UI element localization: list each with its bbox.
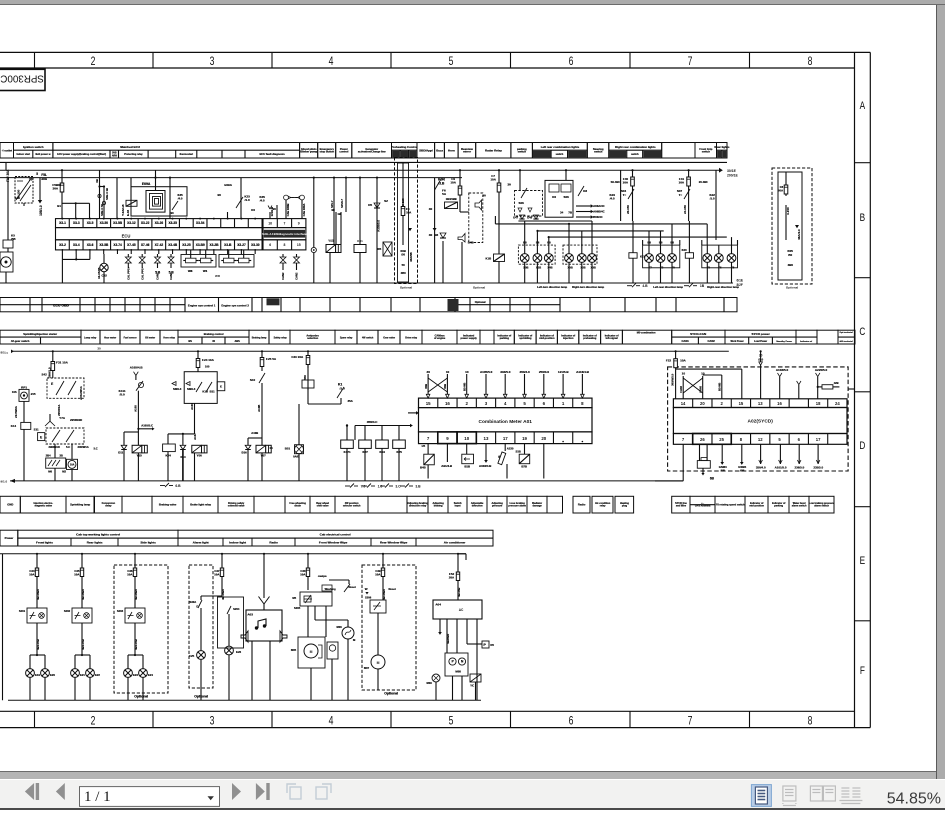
- svg-text:4: 4: [504, 401, 507, 406]
- svg-text:350/4.0: 350/4.0: [519, 370, 529, 374]
- svg-text:/3.B: /3.B: [438, 182, 445, 186]
- svg-text:Braking valve: Braking valve: [159, 503, 177, 507]
- svg-text:X3B: X3B: [590, 266, 595, 270]
- svg-text:Horn: Horn: [448, 148, 455, 152]
- svg-text:parking: parking: [500, 336, 510, 340]
- svg-text:0A/E: 0A/E: [293, 455, 299, 459]
- svg-text:X3-22: X3-22: [141, 221, 150, 225]
- svg-text:power supply: power supply: [460, 336, 477, 340]
- svg-text:W: W: [365, 587, 368, 591]
- svg-text:X3-5B: X3-5B: [113, 221, 123, 225]
- svg-text:/4.0: /4.0: [260, 199, 265, 203]
- svg-text:Right-turn direction lamp: Right-turn direction lamp: [572, 285, 604, 289]
- svg-text:Air conditioner: Air conditioner: [444, 541, 466, 545]
- svg-text:10: 10: [701, 372, 705, 376]
- svg-text:Optional: Optional: [194, 695, 208, 699]
- svg-text:M0-combination: M0-combination: [637, 331, 656, 334]
- horn relay 1B4 and buzzer B4B: [434, 169, 485, 289]
- svg-text:C02: C02: [101, 274, 107, 278]
- svg-text:Cab top working lights control: Cab top working lights control: [76, 533, 120, 537]
- band3 front wiper F30 S305 M05 M06: [291, 553, 356, 701]
- svg-text:S201: S201: [19, 609, 26, 613]
- svg-text:Radio: Radio: [578, 503, 586, 507]
- toolbar: [0, 780, 945, 808]
- svg-text:Optional: Optional: [400, 285, 412, 289]
- svg-text:S42: S42: [41, 373, 47, 377]
- svg-text:Power: Power: [5, 536, 15, 540]
- svg-text:M07: M07: [364, 666, 370, 670]
- svg-text:A91/4.B: A91/4.B: [441, 464, 452, 468]
- svg-text:GND: GND: [7, 503, 13, 507]
- svg-text:2B4: 2B4: [46, 454, 51, 458]
- SYCD A02 block: [673, 399, 847, 445]
- SAE J1939 diagnostic interface connector: [262, 219, 307, 250]
- svg-text:Sprinkling/Injection starter: Sprinkling/Injection starter: [23, 332, 57, 336]
- svg-text:M: M: [310, 650, 313, 654]
- svg-text:10A: 10A: [490, 178, 496, 182]
- svg-text:30: 30: [507, 183, 511, 187]
- svg-text:16: 16: [268, 221, 272, 225]
- svg-text:X3-74: X3-74: [113, 243, 122, 247]
- svg-text:4W switch: 4W switch: [362, 337, 374, 340]
- svg-text:7: 7: [688, 56, 693, 68]
- svg-text:B8: B8: [536, 241, 540, 245]
- svg-text:5: 5: [523, 401, 526, 406]
- svg-text:Hour meter: Hour meter: [104, 337, 116, 340]
- svg-text:1: 1: [562, 401, 565, 406]
- svg-text:P: P: [451, 660, 453, 664]
- svg-text:M3: M3: [434, 233, 438, 237]
- svg-text:Reset: Reset: [388, 587, 395, 591]
- svg-text:X3-54: X3-54: [196, 221, 205, 225]
- svg-text:S202: S202: [64, 609, 71, 613]
- svg-text:Fuel sensor: Fuel sensor: [124, 338, 137, 340]
- CAN twisted pair bowties: [125, 254, 174, 280]
- svg-text:10: 10: [465, 370, 469, 374]
- svg-text:14: 14: [681, 401, 686, 406]
- svg-text:8/1Lc: 8/1Lc: [1, 350, 9, 354]
- svg-text:X3-4B: X3-4B: [168, 243, 178, 247]
- svg-text:D47: D47: [513, 216, 518, 220]
- svg-text:4B-15B0: 4B-15B0: [382, 589, 386, 600]
- next page button: [232, 783, 241, 800]
- diode D5 branch: [368, 177, 388, 284]
- svg-text:SYCD-CAN: SYCD-CAN: [690, 332, 706, 336]
- svg-text:YC: YC: [470, 684, 474, 688]
- svg-text:switch: switch: [594, 149, 603, 153]
- svg-text:7: 7: [427, 436, 430, 441]
- lamp group 3: [627, 240, 684, 289]
- svg-text:B06/4C: B06/4C: [593, 215, 602, 219]
- svg-text:Combination Meter A01: Combination Meter A01: [479, 419, 533, 425]
- svg-text:17: 17: [503, 436, 508, 441]
- svg-text:Blinker pump: Blinker pump: [300, 149, 317, 153]
- svg-text:Right rear combination lights: Right rear combination lights: [615, 145, 656, 149]
- svg-text:A15A/W1A: A15A/W1A: [79, 386, 83, 400]
- svg-text:A03: A03: [247, 613, 253, 617]
- band1 relay K5 left edge: [3, 234, 16, 253]
- relay K21 K20 boxes: [629, 221, 694, 283]
- svg-text:S204: S204: [233, 607, 240, 611]
- svg-text:X3-B9: X3-B9: [196, 243, 205, 247]
- svg-text:Braking lamp: Braking lamp: [252, 338, 267, 340]
- lamp group 2: [563, 245, 605, 289]
- svg-text:B8: B8: [523, 241, 527, 245]
- band3 indoor light S204 E26: [218, 590, 244, 700]
- svg-text:30/1E: 30/1E: [727, 169, 737, 173]
- svg-text:90: 90: [171, 211, 174, 215]
- svg-text:6: 6: [569, 715, 574, 727]
- band1 relay K15 cluster: [6, 169, 48, 216]
- band3 side lights circuit F36 S203 lamps E23 E24 (optional): [114, 553, 168, 701]
- lamp group 1 left-turn: [518, 241, 567, 290]
- svg-text:K6: K6: [552, 195, 556, 199]
- svg-text:W1: W1: [203, 269, 208, 273]
- svg-text:C25: C25: [189, 654, 195, 658]
- svg-text:Side lights: Side lights: [140, 541, 156, 545]
- svg-text:/4.0: /4.0: [610, 197, 615, 201]
- svg-text:X3-3: X3-3: [73, 221, 80, 225]
- svg-text:switch: switch: [556, 153, 564, 156]
- svg-text:9B: 9B: [331, 208, 334, 212]
- svg-text:/1.0: /1.0: [710, 197, 715, 201]
- svg-text:30: 30: [29, 178, 33, 182]
- svg-text:A: A: [860, 100, 866, 112]
- svg-text:ECU fault diagnosis: ECU fault diagnosis: [259, 152, 285, 156]
- svg-text:30: 30: [426, 370, 430, 374]
- svg-text:B4B: B4B: [468, 241, 474, 245]
- svg-text:Horn relay: Horn relay: [163, 338, 175, 340]
- svg-text:A04: A04: [435, 603, 441, 607]
- svg-text:Braking control: Braking control: [204, 332, 224, 336]
- svg-text:E: E: [220, 385, 222, 389]
- svg-text:F31 10A: F31 10A: [56, 361, 68, 365]
- svg-text:30B: 30B: [443, 384, 447, 389]
- svg-text:Opt territorial: Opt territorial: [839, 331, 853, 334]
- svg-text:Y05: Y05: [136, 454, 142, 458]
- single page view button (active): [751, 784, 771, 806]
- band2 fuse F31 and spreader switch cluster: [41, 350, 84, 416]
- svg-text:B8: B8: [647, 241, 651, 245]
- svg-text:M06: M06: [336, 625, 342, 629]
- svg-text:X3-1: X3-1: [59, 221, 66, 225]
- svg-text:of engine: of engine: [434, 336, 446, 340]
- svg-text:17: 17: [816, 437, 821, 442]
- lamp bus wiring: [495, 216, 731, 245]
- band2 bottom terminal strip: [0, 496, 835, 513]
- svg-text:WR: WR: [215, 274, 221, 278]
- band2 valve B01: [285, 404, 304, 481]
- svg-text:T2: T2: [660, 266, 664, 270]
- svg-text:CAN2: CAN2: [281, 272, 285, 280]
- svg-text:preheating: preheating: [583, 336, 596, 340]
- SYCD right exit arrow: [848, 388, 854, 390]
- ECU connector block: [56, 218, 263, 250]
- svg-text:10A: 10A: [450, 181, 456, 185]
- svg-text:X3-6: X3-6: [87, 243, 94, 247]
- svg-text:thermostart: thermostart: [179, 153, 193, 156]
- svg-text:Radar Relay: Radar Relay: [485, 148, 502, 152]
- svg-text:B11: B11: [210, 390, 215, 394]
- svg-text:Y7A: Y7A: [59, 416, 66, 420]
- svg-text:delay: delay: [105, 505, 112, 508]
- svg-text:mirror: mirror: [463, 149, 471, 153]
- previous view button (disabled): [287, 784, 301, 799]
- svg-text:θ: θ: [498, 455, 500, 459]
- svg-text:F22: F22: [666, 359, 672, 363]
- svg-text:X3-27: X3-27: [237, 243, 246, 247]
- svg-text:10S: 10S: [12, 390, 17, 394]
- svg-text:A06B/4C: A06B/4C: [593, 210, 605, 214]
- band3 header strip: [0, 530, 493, 546]
- svg-text:Matched ECU: Matched ECU: [120, 145, 140, 149]
- svg-text:Reset: Reset: [348, 585, 355, 589]
- svg-text:Ignition switch: Ignition switch: [23, 145, 44, 149]
- svg-text:X3-30: X3-30: [251, 243, 260, 247]
- optional box 2 (radar): [772, 168, 812, 289]
- svg-text:5.B: 5.B: [155, 271, 161, 275]
- svg-text:8: 8: [808, 715, 813, 727]
- svg-text:9: 9: [446, 436, 449, 441]
- svg-text:Preheating Control: Preheating Control: [391, 145, 417, 149]
- svg-text:15: 15: [426, 401, 431, 406]
- svg-text:E26: E26: [236, 650, 241, 654]
- svg-text:1B: 1B: [700, 284, 705, 288]
- svg-text:A06A/4C: A06A/4C: [593, 204, 605, 208]
- svg-text:B1: B1: [57, 204, 61, 208]
- svg-text:AC: AC: [459, 608, 464, 612]
- svg-text:9: 9: [298, 221, 300, 225]
- svg-text:ECU OBD: ECU OBD: [53, 304, 69, 308]
- band1 jumper wire to X3-3 X3-5: [57, 202, 89, 218]
- svg-text:braking: braking: [434, 505, 443, 508]
- svg-text:S0V9-7: S0V9-7: [340, 199, 344, 208]
- band1 ground rail: [0, 279, 743, 287]
- svg-text:D5: D5: [377, 247, 381, 251]
- svg-text:CAL PPS-: CAL PPS-: [140, 267, 144, 280]
- svg-text:B5-NB: B5-NB: [463, 383, 467, 391]
- svg-text:Rear Window Wipe: Rear Window Wipe: [380, 541, 408, 545]
- svg-text:Work Power: Work Power: [730, 341, 743, 343]
- band2 relay K24 diode D14 relay Y06: [160, 433, 207, 488]
- svg-text:42-gear switch: 42-gear switch: [11, 339, 30, 343]
- svg-text:6.B: 6.B: [175, 484, 181, 488]
- svg-text:S0B-3 7B: S0B-3 7B: [100, 204, 104, 216]
- band3 power rail: [0, 553, 466, 555]
- svg-text:CAN2: CAN2: [707, 339, 715, 343]
- svg-text:19: 19: [522, 436, 527, 441]
- svg-text:29VR91D: 29VR91D: [70, 418, 82, 422]
- svg-text:10: 10: [682, 372, 686, 376]
- svg-text:magnetic valve: magnetic valve: [34, 505, 52, 508]
- svg-text:X1B: X1B: [536, 266, 541, 270]
- svg-text:15: 15: [297, 243, 301, 247]
- svg-text:12: 12: [758, 437, 763, 442]
- svg-text:4B1-15B: 4B1-15B: [134, 639, 138, 650]
- svg-text:13: 13: [484, 436, 489, 441]
- svg-text:Lamp relay: Lamp relay: [84, 338, 97, 340]
- lamp group 4: [684, 240, 740, 289]
- svg-text:A103/5.0: A103/5.0: [776, 368, 789, 372]
- svg-text:ARH: ARH: [112, 154, 117, 157]
- svg-text:10A: 10A: [300, 572, 306, 576]
- svg-text:Standby Power: Standby Power: [776, 340, 792, 343]
- svg-text:10A: 10A: [680, 359, 686, 363]
- svg-text:X7-46: X7-46: [141, 243, 150, 247]
- svg-text:A105/5.C: A105/5.C: [141, 424, 153, 428]
- band1 ECU plug E09A concentric element: [131, 170, 187, 216]
- svg-text:E: E: [40, 436, 42, 440]
- svg-text:/5.0: /5.0: [119, 393, 124, 397]
- svg-text:10A: 10A: [70, 464, 75, 467]
- svg-text:X7-42: X7-42: [155, 243, 164, 247]
- svg-text:left-signal: left-signal: [605, 336, 617, 340]
- svg-text:7: 7: [688, 715, 693, 727]
- svg-text:Left-turn direction lamp: Left-turn direction lamp: [537, 285, 567, 289]
- svg-text:Alarm light: Alarm light: [193, 541, 209, 545]
- band3 air conditioner A04 AC: [426, 553, 494, 701]
- svg-text:A105: A105: [134, 405, 138, 412]
- svg-text:B: B: [860, 212, 866, 224]
- page frame top ruler: [0, 52, 870, 68]
- svg-text:Sprinkling lamp: Sprinkling lamp: [70, 503, 90, 507]
- svg-text:230/W1A: 230/W1A: [77, 445, 88, 449]
- svg-text:6B: 6B: [710, 477, 715, 481]
- svg-text:5: 5: [36, 172, 38, 176]
- svg-text:350/4.C: 350/4.C: [367, 420, 378, 424]
- svg-text:100: 100: [205, 365, 210, 369]
- band2 header strip: [0, 330, 855, 344]
- svg-text:B8: B8: [547, 241, 551, 245]
- svg-text:236/5.0: 236/5.0: [794, 466, 804, 470]
- svg-text:selector switch: selector switch: [343, 505, 361, 508]
- svg-text:D11: D11: [118, 451, 123, 455]
- page frame bottom ruler: [0, 711, 870, 727]
- svg-text:F25 5A: F25 5A: [266, 357, 277, 361]
- svg-text:90: 90: [217, 193, 221, 197]
- svg-text:activation/Charge line: activation/Charge line: [358, 149, 386, 153]
- svg-text:D5: D5: [368, 203, 372, 207]
- svg-text:10: 10: [446, 370, 450, 374]
- svg-text:S06: S06: [518, 201, 524, 205]
- svg-text:7: 7: [284, 221, 286, 225]
- ECU lower wires and lamp C02: [61, 249, 256, 283]
- svg-text:350: 350: [303, 375, 307, 380]
- svg-text:K8: K8: [583, 189, 587, 193]
- fuse F41 branch with switch S07: [677, 169, 716, 240]
- svg-text:X7-45: X7-45: [127, 243, 136, 247]
- svg-text:ECU power supply/(braking cont: ECU power supply/(braking control)(Start…: [57, 153, 106, 156]
- svg-text:4B0: 4B0: [787, 263, 793, 267]
- svg-text:alarm switch: alarm switch: [792, 505, 807, 508]
- svg-text:X2B: X2B: [580, 266, 585, 270]
- svg-text:S0-4B0: S0-4B0: [610, 180, 620, 184]
- terminating resistors WR: [181, 250, 254, 278]
- svg-text:1B4/1BB: 1B4/1BB: [446, 197, 457, 201]
- combination meter A01: [408, 398, 592, 444]
- svg-text:M6: M6: [48, 470, 52, 474]
- previous page button: [56, 783, 65, 800]
- bottom gray band (horizontal scrollbar): [0, 771, 936, 773]
- continuous facing view button (disabled): [839, 788, 862, 804]
- svg-text:M5: M5: [292, 596, 296, 600]
- svg-text:5.B: 5.B: [169, 271, 175, 275]
- svg-text:K0B: K0B: [400, 249, 405, 253]
- svg-text:10A: 10A: [127, 572, 133, 576]
- svg-text:/50: /50: [401, 252, 405, 256]
- svg-text:Optional: Optional: [786, 285, 798, 289]
- svg-text:10A: 10A: [406, 210, 411, 214]
- svg-text:Y05: Y05: [328, 239, 334, 243]
- svg-text:1/5: 1/5: [421, 444, 425, 448]
- next view button (disabled): [316, 784, 331, 799]
- svg-text:CAE 939A: CAE 939A: [302, 204, 306, 217]
- svg-text:cautpa: cautpa: [318, 574, 327, 578]
- svg-text:3-150: 3-150: [786, 207, 790, 215]
- svg-text:20-150: 20-150: [626, 205, 630, 214]
- svg-text:29I/R91D: 29I/R91D: [48, 445, 59, 449]
- svg-text:Front lights: Front lights: [36, 541, 53, 545]
- svg-text:Drive relay: Drive relay: [405, 338, 418, 340]
- switch K0R branch: [429, 178, 447, 284]
- svg-text:200/1E: 200/1E: [727, 173, 738, 177]
- svg-text:10A: 10A: [214, 572, 220, 576]
- band1 switch K25: [236, 178, 276, 219]
- svg-text:4B-15B0: 4B-15B0: [81, 589, 85, 600]
- svg-text:E: E: [51, 382, 53, 386]
- band2 diode D16 relay Y07: [241, 438, 273, 481]
- svg-text:5VB: 5VB: [112, 152, 117, 154]
- svg-text:plug: plug: [622, 505, 628, 508]
- svg-text:T=: T=: [623, 193, 627, 197]
- svg-text:4: 4: [329, 56, 334, 68]
- svg-text:K1B: K1B: [485, 257, 491, 261]
- svg-text:10A: 10A: [678, 181, 684, 185]
- svg-text:B01: B01: [285, 447, 291, 451]
- svg-text:250/3.0: 250/3.0: [539, 370, 549, 374]
- svg-text:pressure alarm: pressure alarm: [508, 505, 526, 508]
- band2 resistor 2B4 and pump motor: [46, 444, 78, 481]
- band1 header bottom line: [0, 161, 727, 163]
- svg-text:121/2.B: 121/2.B: [270, 207, 274, 216]
- svg-text:E: E: [196, 605, 198, 609]
- SYCD bottom wires: [655, 444, 824, 481]
- svg-text:CAN0: CAN0: [699, 385, 703, 393]
- meter bottom components: [420, 444, 544, 479]
- band3 radio A03 with antenna and speakers: [241, 553, 287, 701]
- svg-text:350/4.0: 350/4.0: [756, 466, 766, 470]
- svg-text:18: 18: [816, 401, 821, 406]
- svg-text:E19: E19: [35, 673, 40, 677]
- title block SPR300C (rotated): [0, 69, 45, 90]
- svg-text:Y06: Y06: [196, 454, 202, 458]
- facing pages view button (disabled): [810, 786, 835, 801]
- svg-text:SAE-J-1939diagnostic interface: SAE-J-1939diagnostic interface: [262, 232, 307, 236]
- svg-text:215: 215: [31, 392, 36, 396]
- svg-text:29/W1.0: 29/W1.0: [48, 367, 52, 378]
- svg-text:parking: parking: [774, 505, 783, 508]
- band3 front lights circuit F34 S201 lamps E19 E20: [19, 553, 56, 701]
- svg-text:K14: K14: [11, 424, 17, 428]
- SAE twisted pair wires: [268, 195, 306, 219]
- svg-text:3: 3: [210, 56, 215, 68]
- svg-text:B8: B8: [670, 241, 674, 245]
- svg-text:Optional: Optional: [473, 285, 485, 289]
- svg-text:/0B: /0B: [740, 468, 744, 472]
- svg-text:5: 5: [449, 715, 454, 727]
- band2 relays K171 K27 K13 K25: [341, 424, 421, 488]
- svg-text:8: 8: [581, 401, 584, 406]
